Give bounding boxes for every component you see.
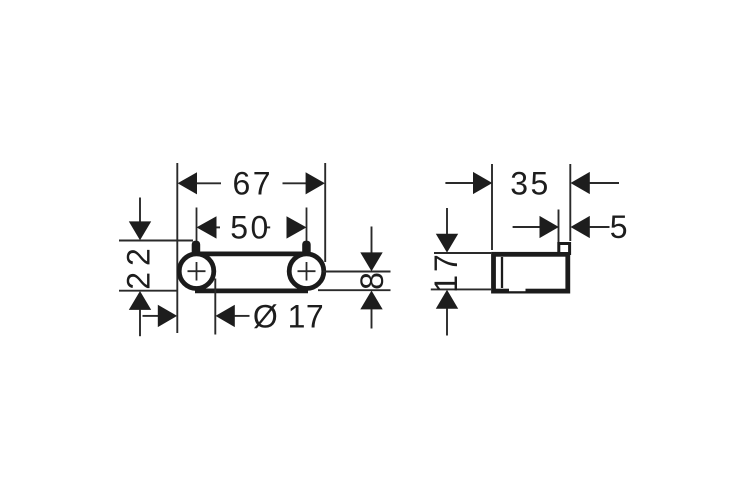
svg-text:Ø 17: Ø 17 [253,298,324,334]
side view: bottom edge thinning detail [509,288,526,291]
dimension 50: right stub line [267,226,270,228]
front view: extension line right (67 dim) [324,163,326,262]
dimension 35: right arrow [571,172,590,194]
dimension 50: left arrow [197,216,217,238]
dimension 67: left line segment [197,182,221,184]
dimension Ø17: left arrow [158,305,177,327]
dimension Ø17: right arrow [216,305,235,327]
dimension 8: bottom extension line [318,289,391,291]
front view: left mounting pin [192,241,201,254]
dimension 22: up arrow [129,291,151,310]
dimension 5: left line [513,226,541,228]
dimension 67: right arrow [306,172,325,194]
dimension 17: lower dimension line [446,309,448,336]
front view: left rosette circle Ø17 [179,254,214,289]
dimension 8: lower dimension line [371,309,373,329]
dimension 17: top extension line [434,252,491,254]
dimension 17: up arrow [436,290,458,309]
side view: top notch (5 dim) [559,244,570,254]
front view: right rosette circle Ø17 [289,254,324,289]
side view: extension line left (35 dim) [491,164,493,250]
svg-text:22: 22 [120,242,156,290]
svg-text:35: 35 [510,166,551,202]
dimension 17: upper dimension line [446,208,448,234]
dimension 67: left arrow [178,172,197,194]
dimension 35: left arrow [473,172,492,194]
dimension 22: down arrow [129,221,151,240]
dimension 22: bottom extension line [119,290,178,292]
front view: left circle crosshair [188,270,206,272]
dimension 22: lower dimension line [139,310,141,337]
dimension 22: top extension line [119,240,193,242]
dimension 22: upper dimension line [139,198,141,223]
svg-text:8: 8 [354,272,390,290]
dimension 8: upper dimension line [371,227,373,254]
svg-text:67: 67 [233,166,274,202]
svg-text:50: 50 [230,210,271,246]
dimension 5: left arrow [540,216,559,238]
dimension 5: notch extension line [558,210,560,248]
dimension 35: right line [590,182,620,184]
dimension 50: left stub line [217,226,221,228]
dimension 5: right line [590,226,610,228]
dimension 35: left line [445,182,473,184]
dimension 17: bottom extension line [431,288,491,290]
front view: right mounting pin [302,241,311,254]
side view: extension line right (35 dim) [569,164,571,241]
dimension 5: right arrow [571,216,590,238]
front view: rail top edge [195,251,308,256]
dimension Ø17: tangent extension line [214,279,216,335]
front view: right circle crosshair [298,270,316,272]
dimension 8: down arrow [360,252,382,271]
front view: rail bottom edge [195,288,308,293]
dimension Ø17: left leader line [143,315,159,317]
front view: extension line left (67 dim) [176,163,178,333]
dimension 50: right arrow [287,216,307,238]
dimension Ø17: right leader line [235,315,250,317]
side view: body outline [494,254,568,291]
front view: centre line right circle (50 dim extension) [306,208,308,285]
dimension 8: up arrow [360,291,382,310]
side view: inner plate line [501,257,503,288]
front view: centre line left circle (50 dim extension) [196,208,198,285]
dimension 8: top extension line [323,271,391,273]
dimension 67: right line segment [283,182,307,184]
svg-text:17: 17 [428,251,464,293]
dimension 17: down arrow [436,234,458,253]
svg-text:5: 5 [610,209,628,245]
